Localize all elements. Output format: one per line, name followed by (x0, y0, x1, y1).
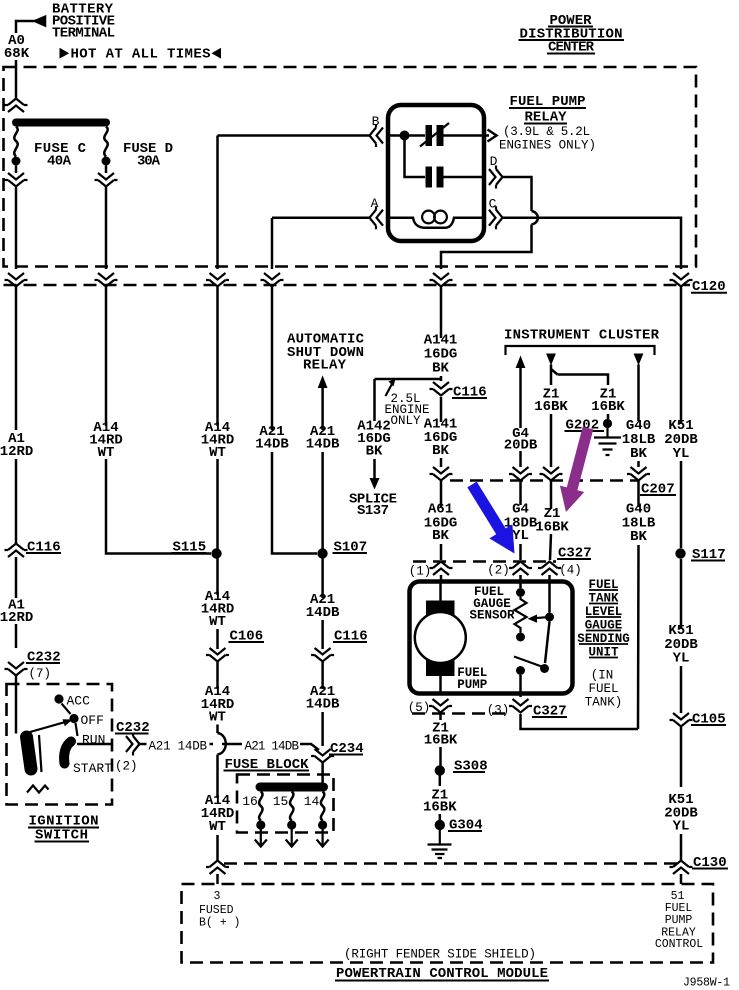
wire OFF to RUN contact (76, 723, 78, 736)
wire A141 between C116 and C207 (440, 397, 443, 467)
ground G304 dot (435, 820, 445, 830)
relay contact output arrow (484, 130, 497, 142)
svg-text:YL: YL (673, 651, 690, 667)
ignition spring squiggle (27, 786, 49, 793)
wire pin1 into pump motor (439, 575, 442, 601)
svg-text:A: A (371, 196, 379, 211)
connector C234 label (329, 741, 364, 757)
svg-text:15: 15 (273, 794, 289, 809)
wire B line inside relay (388, 134, 484, 137)
connector chevron C116 on A1 (5, 544, 28, 558)
svg-text:WT: WT (209, 819, 226, 835)
connector chevron C232 run (126, 733, 140, 756)
connector C116 label (A21) (333, 629, 368, 645)
wire relay A to corner (272, 216, 369, 219)
wire G4 with up arrow into cluster (516, 356, 526, 468)
wire hop D over C (532, 211, 538, 225)
connector C207 dashed line (450, 479, 639, 482)
svg-text:(2): (2) (487, 564, 510, 578)
svg-text:FUEL: FUEL (588, 682, 618, 696)
power distribution center title (519, 13, 625, 56)
connector chevron relay pin A (370, 206, 384, 229)
switch left dot (516, 666, 525, 675)
svg-text:TERMINAL: TERMINAL (52, 26, 115, 42)
fuse D terminal dot (102, 157, 111, 166)
wire Z1 below S308 (439, 776, 442, 821)
wire label A21 14DB (lower) (306, 684, 340, 713)
connector chevron relay pin B (370, 124, 384, 147)
svg-text:J958W-1: J958W-1 (683, 977, 730, 990)
purple annotation arrow (560, 427, 593, 512)
splice S115 label (172, 540, 207, 556)
wire A1 below C116 (15, 557, 18, 648)
connector chevron C105 (670, 713, 693, 727)
connector C120 dashed line (4, 284, 691, 287)
ground G202 symbol (594, 428, 621, 455)
svg-text:40A: 40A (47, 154, 72, 170)
wire A141 below C120 (440, 285, 443, 381)
connector chevron K51 at C130 (670, 861, 693, 875)
wire 2.5L branch horizontal (375, 378, 442, 381)
svg-text:16: 16 (242, 794, 258, 809)
connector chevron wire A21 at C120 (261, 273, 284, 287)
svg-text:PUMP: PUMP (665, 914, 693, 927)
svg-text:(7): (7) (29, 667, 52, 681)
wire pin C to K51 corner (503, 218, 681, 269)
fuse block dashed box (237, 775, 334, 833)
wire motor to pin 5 (439, 676, 442, 694)
svg-text:TANK): TANK) (585, 696, 623, 710)
wire relay internal B to lower contact (405, 136, 426, 178)
wire A1 into ignition switch (15, 676, 18, 734)
wire fuse C output (15, 166, 18, 174)
connector C105 label (691, 712, 726, 728)
wire label A14 14RD WT (below S115) (201, 589, 235, 630)
wire relay coil A-C (388, 218, 484, 228)
power distribution center dashed box (4, 67, 697, 267)
fuse 16 element (259, 792, 262, 821)
wire label K51 20DB YL (upper) (664, 418, 698, 462)
connector chevron G4 at C207 (509, 467, 532, 481)
connector chevron fuse C out (5, 173, 28, 187)
connector C327 lower dashed line (412, 712, 506, 715)
wire pin D to A141 drop (503, 177, 532, 211)
fuse 15 dot (287, 820, 296, 829)
wire A0 battery feed with pointer (16, 17, 45, 98)
fuse 14 element (321, 792, 324, 821)
splice S107 label (333, 540, 368, 556)
wire run feed continues (222, 744, 319, 750)
fuse block bus bar (256, 783, 329, 792)
splice S117 label (691, 547, 726, 563)
wire fuse C down to C120 (15, 187, 18, 269)
ACC contact dot (54, 694, 63, 703)
wire A142 branch down (373, 379, 376, 481)
svg-text:YL: YL (512, 528, 529, 544)
fuel tank unit box (410, 582, 573, 694)
wire G4 between C207 and C327 (519, 481, 522, 560)
ground G202 dot (603, 419, 612, 428)
svg-text:BK: BK (432, 443, 449, 459)
svg-text:16BK: 16BK (424, 733, 458, 749)
sensor top dot (516, 588, 525, 597)
wire A14 jog to S115 (106, 553, 211, 554)
svg-text:(1): (1) (409, 565, 432, 579)
wire label K51 20DB YL (mid) (664, 623, 698, 667)
relay upper contact (420, 123, 449, 147)
wire K51 below C105 (680, 727, 683, 861)
splice S308 label (453, 759, 488, 775)
wire label Z1 16BK (left) (534, 387, 568, 416)
relay coil loops (422, 211, 447, 224)
wire label A1 12RD lower (0, 598, 33, 627)
svg-text:ENGINES ONLY): ENGINES ONLY) (499, 139, 596, 153)
low fuel switch blade (514, 657, 543, 668)
connector chevron A14 at C130 (206, 861, 229, 875)
svg-text:14DB: 14DB (306, 437, 340, 453)
fuel tank level gauge sending unit label (577, 578, 630, 710)
svg-text:30A: 30A (137, 154, 161, 170)
PCM pin 3 label (199, 890, 240, 930)
wire to ASD relay with up arrow (318, 375, 328, 649)
splice S107 dot (317, 548, 327, 558)
node A0 label (4, 33, 30, 62)
svg-text:BK: BK (630, 446, 647, 462)
connector C106 label (229, 629, 265, 645)
svg-text:16BK: 16BK (535, 520, 569, 536)
connector chevron relay pin D (489, 166, 503, 189)
hot at all times banner (60, 47, 222, 63)
wire fuse D down to C120 (105, 187, 108, 269)
wire A61 between C207 and C327 (440, 481, 443, 560)
wire K51 below S117 (680, 559, 683, 713)
ignition switch key bar (27, 737, 32, 769)
svg-text:12RD: 12RD (0, 444, 33, 460)
wire label Z1 16BK (ground) (423, 788, 457, 816)
svg-text:INSTRUMENT CLUSTER: INSTRUMENT CLUSTER (504, 328, 660, 344)
svg-text:BK: BK (366, 444, 383, 460)
svg-text:RELAY: RELAY (303, 358, 347, 374)
connector chevron pin 1 (430, 562, 453, 576)
bus bar in PDC (12, 119, 110, 127)
svg-text:14DB: 14DB (255, 437, 289, 453)
connector chevron B+ feed (5, 99, 28, 113)
fuse D element (104, 127, 107, 157)
wire K51 below C120 (680, 285, 683, 548)
wire A-line down from corner (271, 218, 274, 269)
wire relay B to corner (218, 134, 370, 137)
fuse C label (34, 141, 87, 170)
connector chevron relay pin C (489, 206, 503, 229)
wire label A21 14DB (ASD branch) (306, 424, 340, 453)
svg-text:WT: WT (209, 614, 226, 630)
connector C232 label (run feed) (115, 720, 150, 736)
svg-text:OFF: OFF (81, 713, 104, 728)
wire Z1 pump return below pin 5 (439, 714, 442, 766)
wire fuse D output (105, 166, 108, 174)
svg-text:FUSED: FUSED (199, 904, 234, 917)
wire A14 relay-B branch down (216, 285, 219, 649)
wire Z1 jumper to G202 (558, 375, 609, 420)
arrow to splice S137 (370, 478, 380, 490)
wire label Z1 16BK (right) (591, 387, 625, 416)
svg-text:HOT AT ALL TIMES: HOT AT ALL TIMES (71, 47, 211, 63)
svg-text:14: 14 (304, 794, 320, 809)
svg-text:(5): (5) (408, 701, 431, 715)
connector chevron pin 4 (538, 562, 561, 576)
connector chevron wire K51 at C120 (670, 273, 693, 287)
ignition switch dashed box (7, 684, 113, 805)
svg-text:WT: WT (209, 710, 226, 726)
blue annotation arrow (467, 482, 514, 554)
svg-text:B( + ): B( + ) (199, 917, 240, 930)
wire G40 from cluster with down arrow (634, 354, 644, 468)
svg-text:3: 3 (214, 890, 221, 903)
fuel pump relay title (499, 94, 596, 153)
fuse D label (123, 141, 173, 170)
wire A21 into fuse block (321, 763, 324, 783)
fuse 16 output arrow (255, 830, 267, 847)
svg-text:YL: YL (673, 819, 690, 835)
connector chevron pin 2 (509, 562, 532, 576)
connector chevron A141 at C207 (430, 467, 453, 481)
sensor bottom dot (516, 633, 525, 642)
svg-text:12RD: 12RD (0, 610, 33, 626)
ignition switch bar line (39, 735, 42, 772)
splice S117 dot (675, 548, 685, 558)
svg-text:WT: WT (209, 445, 226, 461)
wire label A14 14RD WT (fuse branch) (89, 420, 123, 461)
svg-text:(IN: (IN (591, 669, 614, 683)
connector C116 label (A141) (452, 385, 487, 401)
wire A21 run feed to hop (140, 743, 213, 746)
svg-text:YL: YL (673, 446, 690, 462)
svg-text:(4): (4) (559, 564, 582, 578)
wire label G4 20DB (504, 426, 538, 454)
svg-text:ACC: ACC (67, 694, 91, 709)
svg-text:PUMP: PUMP (457, 678, 487, 692)
connector C130 dashed line (224, 862, 677, 865)
powertrain control module dashed box (182, 884, 714, 963)
sensor wiper arrow (528, 615, 550, 623)
battery positive terminal label (52, 2, 115, 42)
connector C232 label (26, 650, 61, 666)
wire label A14 14RD WT (relay branch) (201, 420, 235, 461)
svg-text:START: START (73, 761, 112, 776)
svg-text:BK: BK (432, 528, 449, 544)
connector chevron wire A14 at C120 (95, 273, 118, 287)
wire label A21 14DB (relay branch) (255, 424, 289, 453)
wire A14 hop over run wire (218, 733, 226, 755)
connector C130 label (692, 855, 728, 871)
svg-text:14DB: 14DB (306, 697, 340, 713)
splice S115 dot (211, 548, 221, 558)
wire A1 below C120 (15, 285, 18, 543)
svg-text:A21 14DB: A21 14DB (149, 740, 208, 754)
wire label G40 18LB BK (upper) (622, 418, 656, 462)
ground G202 label (565, 418, 605, 434)
wire pin2 to sensor (519, 575, 522, 588)
wire Z1 between C207 and C327 (550, 481, 551, 560)
fuse 14 output arrow (317, 830, 329, 847)
fuel pump motor label (457, 666, 487, 692)
svg-text:(RIGHT FENDER SIDE SHIELD): (RIGHT FENDER SIDE SHIELD) (344, 948, 536, 962)
svg-text:68K: 68K (4, 46, 30, 62)
connector chevron fuse D out (95, 173, 118, 187)
2.5L engine only callout (384, 379, 429, 429)
connector chevron pin 3 (509, 699, 532, 713)
wire label G4 18DB YL (504, 502, 538, 545)
wire A21 jog to S107 (272, 553, 317, 554)
automatic shut down relay label (287, 332, 365, 374)
connector C116 label (A1) (26, 540, 61, 556)
fuel pump relay box U1 (388, 105, 484, 241)
fuse C terminal dot (12, 157, 21, 166)
svg-text:S137: S137 (357, 503, 389, 519)
wire A21 from C116 to C234 (321, 662, 324, 746)
ground G304 label (448, 818, 483, 834)
connector chevron Z1 at C207 (540, 467, 563, 481)
fuse C element (14, 127, 17, 157)
ignition wiper arm to OFF (30, 719, 73, 732)
wire pin4 into unit (548, 575, 551, 613)
connector C120 label (691, 279, 727, 295)
relay internal junction dot (400, 131, 410, 141)
connector chevron wire A141 at C120 (430, 273, 453, 287)
wire label A14 14RD WT (lower) (201, 793, 235, 835)
PCM pin 51 label (655, 890, 703, 951)
svg-text:16BK: 16BK (591, 399, 625, 415)
powertrain control module label (335, 966, 549, 982)
wire A14 fuse D branch down (105, 285, 108, 553)
connector C327 upper dashed line (413, 560, 556, 563)
svg-text:16BK: 16BK (423, 800, 457, 816)
connector chevron wire A14R at C120 (206, 273, 229, 287)
wire Z1 from cluster with down arrow (546, 354, 557, 468)
wire G40 between C207 and corner (521, 481, 639, 729)
connector C327 lower label (532, 704, 567, 720)
wire label A141 16DG BK (upper) (424, 333, 458, 377)
wire D drop to A141 (441, 225, 532, 270)
wire A21 relay-A branch down (271, 285, 274, 553)
svg-text:(2): (2) (115, 760, 138, 774)
connector chevron G40 at C207 (627, 467, 650, 481)
splice S137 label (349, 492, 397, 520)
wire A14 below hop (216, 755, 219, 862)
svg-text:14DB: 14DB (306, 605, 340, 621)
wire label A21 14DB (below S107) (306, 592, 340, 621)
splice S308 dot (435, 765, 445, 775)
ground G304 symbol (428, 830, 452, 858)
svg-text:20DB: 20DB (504, 438, 538, 454)
instrument cluster bracket (506, 346, 655, 355)
wire switch to pin 3 (519, 675, 522, 697)
svg-text:BK: BK (432, 361, 449, 377)
wire wiper dot to switch (545, 622, 550, 664)
connector chevron C106 (206, 648, 229, 662)
svg-text:ONLY: ONLY (390, 414, 421, 428)
svg-text:CONTROL: CONTROL (655, 938, 703, 951)
svg-text:WT: WT (98, 445, 115, 461)
wire ACC to OFF (62, 704, 71, 715)
fuse block label (224, 757, 310, 773)
wiper junction dot (545, 613, 554, 622)
wire B-line down from corner (216, 136, 219, 270)
fuel pump motor (415, 601, 466, 677)
wire label A142 16DG BK (357, 419, 391, 460)
wire A14 down to hop (216, 662, 219, 733)
fuse 16 dot (256, 820, 265, 829)
fuse 15 output arrow (286, 830, 298, 847)
connector chevron C232 (5, 662, 28, 676)
fuel gauge sensor label (469, 585, 515, 623)
wire lower contact to pin D (444, 176, 485, 179)
wire label Z1 16BK (pump) (424, 721, 458, 749)
fuel gauge sensor resistor (515, 597, 527, 633)
wire label K51 20DB YL (lower) (664, 792, 698, 835)
wire label A61 16DG BK (424, 502, 458, 545)
wire RUN output (77, 743, 113, 746)
wire label Z1 16BK (mid) (535, 506, 569, 536)
ignition switch label (28, 814, 99, 844)
svg-text:SENSOR: SENSOR (469, 609, 515, 623)
wire label A14 14RD WT (mid) (201, 684, 235, 726)
connector chevron C234 (311, 749, 334, 763)
connector C207 label (640, 482, 676, 498)
connector C327 upper label (557, 546, 592, 562)
wire label G40 18LB BK (lower) (622, 502, 656, 546)
connector chevron wire A1 at C120 (5, 273, 28, 287)
wire K51 into PCM (680, 874, 683, 884)
OFF contact dot (69, 714, 78, 723)
connector chevron pin 5 (429, 699, 452, 713)
wire label A1 12RD (0, 431, 33, 460)
svg-text:A21 14DB: A21 14DB (245, 740, 300, 754)
fuse 15 element (290, 792, 293, 821)
switch right dot (540, 664, 549, 673)
svg-text:(3): (3) (487, 704, 510, 718)
svg-text:BK: BK (630, 529, 647, 545)
wire label A141 16DG BK (lower) (424, 417, 458, 460)
wire A14 into PCM (216, 874, 219, 884)
svg-text:16BK: 16BK (534, 399, 568, 415)
fuse 14 dot (318, 820, 327, 829)
connector chevron C116 on A141 (430, 382, 453, 396)
connector chevron C116 lower (311, 648, 334, 662)
relay lower contact (426, 167, 444, 188)
ignition START banana contact (64, 742, 71, 764)
svg-text:(3.9L & 5.2L: (3.9L & 5.2L (503, 125, 590, 139)
